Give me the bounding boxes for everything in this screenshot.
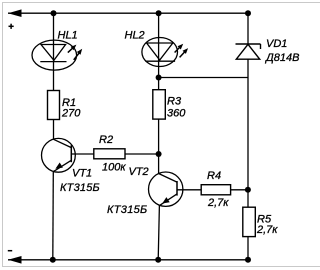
wire: HL2 bottom node to VD1 column: [159, 77, 248, 79]
junction node: R5 / -rail: [245, 257, 251, 263]
wire: R5 to bottom rail: [247, 237, 249, 260]
junction node: +rail / VD1: [245, 10, 251, 16]
svg-text:R2: R2: [99, 134, 113, 146]
svg-text:270: 270: [61, 107, 81, 119]
LED HL1: [32, 40, 79, 70]
- polarity label: [8, 250, 12, 252]
wire: VD1 to R5: [247, 59, 249, 207]
wire: R1 to VT1 collector: [53, 120, 55, 140]
svg-text:2,7к: 2,7к: [256, 224, 278, 236]
HL2 emission arrowheads: [178, 44, 189, 54]
svg-text:КТ315Б: КТ315Б: [107, 204, 148, 216]
junction node: VT2 emitter / -rail: [155, 257, 161, 263]
resistor R4: [201, 185, 230, 195]
wire: VT2 emitter to bottom rail: [158, 205, 159, 259]
junction node: +rail / HL1: [51, 10, 57, 16]
svg-text:HL1: HL1: [58, 30, 78, 42]
HL1 emission arrowheads: [71, 45, 83, 55]
resistor R5: [243, 207, 256, 236]
wire: R2 to VT2 collector node: [125, 153, 159, 155]
svg-text:VT1: VT1: [72, 168, 92, 180]
svg-text:VT2: VT2: [129, 166, 149, 178]
svg-text:VD1: VD1: [266, 38, 287, 50]
+ supply rail (top wire): [8, 12, 248, 14]
resistor R2: [94, 149, 125, 159]
- supply rail (bottom wire): [8, 259, 248, 261]
transistor VT2: [149, 172, 183, 206]
junction node: R4 / R5 / VD1: [245, 187, 251, 193]
svg-text:HL2: HL2: [125, 29, 145, 41]
junction node: R2 / VT2 collector: [156, 151, 162, 157]
wire: R4 to VD1/R5 column: [231, 189, 248, 191]
wire: R3 to VT2 collector: [158, 119, 160, 173]
resistor R1: [48, 91, 60, 120]
VT2 emitter arrowhead: [162, 197, 170, 203]
LED HL2: [142, 38, 185, 67]
svg-text:2,7к: 2,7к: [207, 197, 229, 209]
svg-text:R3: R3: [167, 96, 182, 108]
wire: VT1 emitter to bottom rail: [52, 172, 55, 260]
wire: top rail to VD1: [247, 13, 249, 44]
wire: top rail to HL1/R1 column: [53, 13, 55, 90]
junction node: +rail / HL2: [156, 10, 162, 16]
junction node: VT1 emitter / -rail: [50, 257, 56, 263]
svg-text:100к: 100к: [102, 162, 126, 174]
+ polarity label: [9, 24, 14, 29]
junction node: HL2 / wire to VD1 branch: [156, 75, 162, 81]
VT1 emitter arrowhead: [55, 163, 63, 169]
resistor R3: [153, 90, 166, 119]
svg-text:Д814В: Д814В: [264, 52, 299, 64]
svg-text:R4: R4: [207, 170, 221, 182]
wire: VT1 base to R2: [71, 153, 94, 155]
zener diode VD1: [236, 44, 261, 59]
svg-text:КТ315Б: КТ315Б: [60, 182, 100, 194]
wire: VT2 base to R4: [177, 189, 201, 191]
wire: top rail to HL2 column: [158, 13, 160, 90]
transistor VT1: [42, 138, 76, 172]
svg-text:360: 360: [167, 107, 186, 119]
- terminal arrow: [8, 256, 22, 264]
+ terminal arrow: [8, 9, 22, 17]
